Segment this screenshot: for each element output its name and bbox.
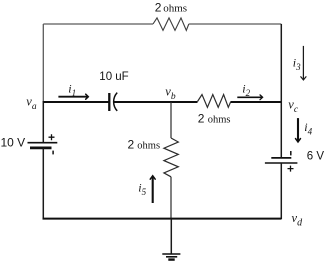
wire bottom horizontal bbox=[43, 218, 282, 220]
battery V2 6V minus plate bbox=[271, 157, 291, 159]
ground symbol bbox=[162, 254, 180, 260]
svg-text:10 V: 10 V bbox=[1, 136, 26, 150]
svg-text:6 V: 6 V bbox=[307, 150, 325, 162]
svg-text:2: 2 bbox=[198, 112, 205, 126]
svg-text:vb: vb bbox=[165, 84, 176, 101]
svg-text:2: 2 bbox=[128, 138, 135, 152]
capacitor C1 right curved plate bbox=[114, 93, 118, 111]
svg-text:2: 2 bbox=[155, 1, 162, 15]
svg-text:ohms: ohms bbox=[208, 115, 231, 126]
wire left vertical upper (corner to node a) bbox=[42, 24, 44, 102]
svg-text:vd: vd bbox=[292, 211, 304, 229]
current arrow i4 bbox=[296, 118, 301, 142]
battery V2 plus sign bbox=[288, 166, 294, 172]
svg-text:va: va bbox=[26, 95, 37, 112]
svg-text:i5: i5 bbox=[138, 180, 146, 196]
battery V2 minus tick bbox=[290, 151, 292, 155]
wire middle vertical (resistor R3 to bottom wire) bbox=[170, 177, 172, 219]
wire middle horizontal (resistor R2 to node c) bbox=[231, 101, 281, 103]
resistor R3 2 ohms (vertical) bbox=[164, 138, 178, 177]
resistor R1 2 ohms (top) bbox=[153, 18, 189, 31]
wire middle horizontal (node a to capacitor) bbox=[43, 101, 109, 103]
svg-text:i3: i3 bbox=[293, 55, 301, 71]
battery V1 10V minus plate bbox=[30, 147, 52, 150]
battery V1 minus tick bbox=[52, 151, 54, 155]
battery V1 plus sign bbox=[49, 134, 55, 140]
svg-text:i2: i2 bbox=[242, 81, 250, 97]
wire top-left horizontal segment bbox=[43, 23, 153, 25]
battery V2 6V plus plate bbox=[265, 162, 298, 164]
svg-text:ohms: ohms bbox=[163, 3, 187, 15]
svg-text:i1: i1 bbox=[68, 82, 76, 98]
current arrow i5 bbox=[150, 176, 155, 203]
wire middle vertical (node b to resistor R3) bbox=[170, 102, 172, 138]
current arrow i2 bbox=[237, 95, 262, 100]
svg-text:ohms: ohms bbox=[137, 141, 160, 152]
resistor R2 2 ohms (middle) bbox=[198, 95, 231, 108]
svg-text:vc: vc bbox=[288, 97, 299, 114]
wire left vertical lower (battery - to bottom corner) bbox=[42, 148, 44, 219]
svg-text:10 uF: 10 uF bbox=[99, 71, 128, 83]
svg-text:i4: i4 bbox=[304, 120, 312, 136]
wire ground stub bbox=[170, 219, 172, 254]
battery V1 10V plus plate bbox=[28, 142, 58, 144]
wire top-right horizontal segment bbox=[189, 23, 281, 25]
wire right vertical (battery V2 to bottom corner) bbox=[280, 163, 282, 219]
wire left vertical (node a to battery +) bbox=[42, 101, 44, 143]
current arrow i3 bbox=[301, 46, 306, 80]
capacitor C1 left plate bbox=[108, 93, 110, 111]
current arrow i1 bbox=[58, 94, 88, 99]
wire middle horizontal (capacitor to resistor R2) bbox=[114, 101, 198, 103]
wire right vertical (top corner to battery V2) bbox=[280, 24, 282, 158]
